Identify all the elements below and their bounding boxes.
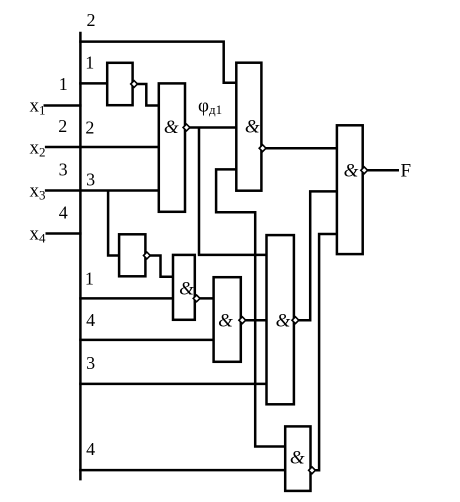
svg-text:4: 4 bbox=[59, 203, 68, 223]
gate U4 (NAND, output F) bbox=[337, 125, 363, 254]
wire x3 branch to inverter U5 bbox=[108, 191, 119, 256]
svg-text:3: 3 bbox=[86, 353, 95, 373]
wire U7 output to U8 bbox=[242, 319, 266, 322]
svg-text:2: 2 bbox=[87, 10, 96, 30]
svg-text:&: & bbox=[344, 160, 359, 181]
wire bus row 4 to gate U7 bbox=[79, 339, 213, 342]
inverter U5 bbox=[119, 234, 145, 276]
wire bus row 2 to gate U3 input bbox=[79, 42, 236, 83]
gate U3 (NAND) bbox=[236, 63, 261, 191]
svg-text:1: 1 bbox=[59, 74, 68, 94]
bubble U2 output bbox=[183, 124, 190, 131]
svg-text:1: 1 bbox=[85, 53, 94, 73]
wire input x4 bbox=[46, 232, 82, 235]
bubble U5 output bbox=[144, 252, 151, 259]
gate U8 (NAND) bbox=[267, 235, 294, 404]
wire bus row 1 to gate U6 bbox=[79, 297, 173, 300]
svg-text:3: 3 bbox=[59, 160, 68, 180]
wire node phi-d1 from U2 output to U3 bbox=[187, 126, 237, 129]
wire U3 output to U4 bbox=[263, 147, 337, 150]
bubble U9 output bbox=[309, 467, 316, 474]
wire inverter U5 output to U6 bbox=[147, 256, 173, 277]
bubble U6 output bbox=[193, 295, 200, 302]
bubble U4 output bbox=[361, 167, 368, 174]
svg-text:&: & bbox=[290, 448, 305, 469]
bubble U3 output bbox=[259, 145, 266, 152]
wire bus row 4 to gate U9 bbox=[79, 469, 285, 472]
wire inverter U1 output to U2 bbox=[134, 84, 159, 106]
wire U6 output to U7 bbox=[197, 297, 214, 300]
gate U2 (NAND) bbox=[159, 83, 185, 211]
gate U6 (NAND) bbox=[173, 255, 195, 320]
wire U4 output to F bbox=[364, 169, 399, 172]
inverter U1 bbox=[107, 63, 132, 105]
svg-text:F: F bbox=[401, 160, 412, 181]
svg-text:&: & bbox=[179, 279, 194, 300]
wire input x1 bbox=[44, 104, 82, 107]
svg-text:4: 4 bbox=[86, 310, 95, 330]
wire U9 output up to U4 input bbox=[312, 234, 337, 470]
svg-text:&: & bbox=[245, 116, 260, 137]
wire input x3 to U2 bbox=[45, 189, 159, 192]
svg-text:3: 3 bbox=[86, 170, 95, 190]
svg-text:4: 4 bbox=[86, 439, 95, 459]
svg-text:&: & bbox=[218, 311, 233, 332]
svg-text:1: 1 bbox=[85, 268, 94, 288]
wire phi-d1 zigzag up to U3 lower input bbox=[216, 169, 255, 255]
wire vertical bus bbox=[79, 32, 82, 481]
wire bus row 1 to inverter U1 input bbox=[79, 82, 107, 85]
svg-text:2: 2 bbox=[85, 118, 94, 138]
bubble U7 output bbox=[239, 317, 246, 324]
wire phi-d1 branch down to U8 input bbox=[198, 128, 267, 255]
bubble U1 output bbox=[131, 81, 138, 88]
gate U9 (NAND) bbox=[285, 426, 310, 491]
wire U8 output up to U4 input bbox=[295, 191, 337, 320]
bubble U8 output bbox=[292, 317, 299, 324]
gate U7 (NAND) bbox=[214, 277, 241, 362]
wire bus row 3 to gate U8 bbox=[79, 383, 266, 386]
svg-text:2: 2 bbox=[58, 116, 67, 136]
wire input x2 to U2 bbox=[45, 146, 159, 149]
wire phi-d1 branch down to U9 input bbox=[255, 255, 285, 447]
svg-text:&: & bbox=[276, 311, 291, 332]
svg-text:&: & bbox=[164, 117, 179, 138]
